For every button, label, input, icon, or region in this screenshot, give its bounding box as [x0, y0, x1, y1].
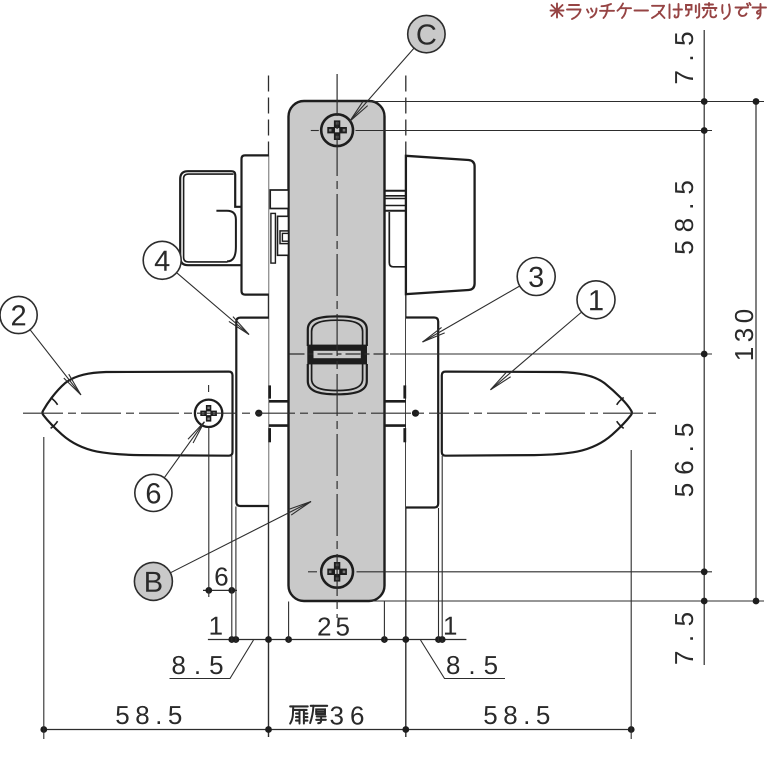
dim text 8.5 right: [447, 656, 497, 674]
thumbturn knob outer outline: [180, 171, 241, 265]
dim text 6: [215, 567, 227, 585]
top faceplate screw C: [321, 114, 353, 146]
left fixing screw head: [282, 233, 288, 241]
extension case left x=288.6: [288, 602, 290, 644]
dim text 36 (door thickness): [331, 706, 364, 724]
top screw centerline: [311, 130, 319, 132]
left hub block: [270, 190, 288, 209]
leader 8.5 left: [170, 640, 254, 679]
extension screw center x=208.8: [208, 428, 210, 598]
latch bolt upper arch outer: [308, 316, 367, 346]
note text: latch case sold separately (red): [551, 4, 564, 18]
dim text 8.5 left: [173, 656, 223, 674]
left fixing screw step: [280, 231, 289, 244]
balloon 1 (outside lever): [577, 281, 615, 319]
mounting post upper: [269, 400, 289, 403]
case bottom edge extension line: [370, 600, 764, 602]
left lever handle 2: [42, 372, 232, 456]
extension rose face x=438.2: [438, 508, 440, 643]
balloon 3 (outside rose): [517, 258, 555, 296]
right lever tip ticks: [617, 398, 624, 405]
door right face line (dashed above knob): [405, 76, 407, 156]
extension left lever tip x=43.8: [43, 437, 45, 739]
thumbturn grip pocket: [216, 211, 236, 262]
latch bolt centerline extension: [390, 353, 712, 355]
bottom faceplate screw: [321, 556, 353, 588]
balloon 6 (rose screw): [135, 474, 172, 511]
horizontal centerline through lever handles: [23, 412, 658, 414]
dots on y=729.5: [40, 726, 47, 733]
dim text 1 right: [445, 617, 456, 635]
balloon C (faceplate screw): [408, 15, 445, 52]
right knob (cylinder cover): [406, 156, 475, 294]
vertical centerline of latch case: [336, 74, 338, 618]
balloon 4 (inside rose): [143, 241, 181, 279]
extension lever neck x=441.8: [441, 456, 443, 643]
bottom dimension line y=729.5: [44, 729, 631, 731]
thumbturn knob inner line: [184, 174, 234, 262]
dimension chain line x=756 (130): [755, 102, 757, 602]
left spindle bar: [271, 213, 276, 263]
upper left rose (thumbturn escutcheon): [242, 155, 269, 294]
dimension line y=639.5: [208, 639, 467, 641]
bottom screw centerline: [308, 571, 317, 573]
dim text 58.5 bottom-right: [484, 706, 549, 724]
dim text 58.5 right: [675, 181, 693, 253]
left lever tip ticks: [51, 398, 58, 405]
mounting post lower: [269, 424, 289, 427]
dimension chain line x=704: [703, 30, 705, 665]
dim text 130: [735, 310, 753, 359]
lower left rose (lever escutcheon): [236, 318, 268, 506]
dim text 1 left: [211, 617, 222, 635]
lever rose screw 6: [195, 400, 222, 427]
dimension 6 line: [203, 589, 237, 591]
dim text 56.5: [675, 424, 693, 496]
latch bolt upper arch inner: [312, 320, 363, 346]
hub boss right: [403, 385, 406, 398]
extension lever neck x=232.5: [231, 456, 233, 643]
dim text 58.5 bottom-left: [116, 706, 181, 724]
extension case right x=384.4: [383, 602, 385, 644]
latch case body B: [289, 101, 385, 601]
dots on y=639.5: [228, 636, 235, 643]
balloon 2 (inside lever): [0, 296, 37, 333]
latch bolt centerline (dash-dot part): [290, 353, 391, 355]
latch bolt lower arch outer: [308, 364, 367, 394]
right cylinder plug: [389, 212, 405, 267]
spindle dot right rose: [412, 410, 419, 417]
balloon B (latch case): [134, 562, 172, 600]
door left face line: [268, 156, 270, 738]
dim text 7.5 top: [675, 33, 693, 84]
left fixing screw housing: [278, 216, 289, 255]
spindle dot left rose: [255, 410, 262, 417]
dim text 25: [318, 617, 349, 635]
chain dots x=704: [701, 98, 708, 105]
door left face line (dashed above rose): [268, 76, 270, 156]
extension right lever tip x=631.2: [630, 450, 632, 739]
door right face line: [405, 156, 407, 737]
hub boss left: [268, 385, 271, 398]
dim text 7.5 bottom: [675, 613, 693, 664]
case top edge extension line: [370, 101, 764, 103]
lower right rose (lever escutcheon): [406, 318, 438, 508]
right lever handle 1: [442, 372, 632, 456]
right cylinder rings: [385, 190, 405, 192]
extension rose face x=236.2: [235, 507, 237, 644]
leader 8.5 right: [421, 640, 506, 679]
label 扉厚 (door thickness kanji): [290, 706, 308, 723]
lever screw centerline dashes: [208, 385, 210, 392]
chain dots x=756: [753, 98, 760, 105]
latch bolt lower arch inner: [312, 364, 363, 391]
latch bolt middle band: [310, 348, 364, 362]
